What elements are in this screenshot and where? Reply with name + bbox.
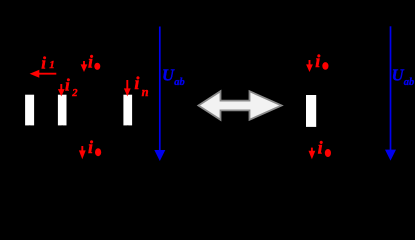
svg-text:U: U bbox=[162, 66, 175, 85]
label i2 bbox=[65, 76, 78, 99]
label i total top-right bbox=[315, 51, 328, 71]
wire: Rn bottom stub bbox=[127, 125, 129, 133]
voltage arrow Uab (left circuit) bbox=[154, 27, 165, 162]
svg-text:1: 1 bbox=[49, 59, 55, 71]
wire: R1 bottom stub bbox=[29, 125, 31, 133]
voltage arrow Uab (right circuit) bbox=[385, 26, 396, 160]
current arrow i2 (down, into R2) bbox=[58, 84, 65, 96]
current arrow in (down, into Rn) bbox=[124, 80, 131, 96]
label in bbox=[134, 73, 148, 99]
current arrow i total top-left (down, on feed wire) bbox=[81, 61, 88, 72]
svg-text:i: i bbox=[41, 53, 46, 72]
current arrow i1 (points left along top rail) bbox=[30, 70, 57, 78]
svg-text:ab: ab bbox=[174, 77, 185, 88]
resistor Rn bbox=[123, 95, 132, 126]
label Uab (left) bbox=[162, 66, 185, 88]
svg-text:U: U bbox=[392, 66, 405, 85]
svg-text:2: 2 bbox=[71, 88, 78, 99]
wire: R2 bottom stub bbox=[61, 125, 63, 133]
label i total top-left bbox=[88, 51, 100, 71]
svg-text:i: i bbox=[65, 76, 70, 95]
svg-text:i: i bbox=[88, 51, 93, 71]
wire: left feed from terminal a bbox=[83, 55, 85, 88]
equivalence double arrow bbox=[198, 91, 281, 120]
wire: R1 top stub bbox=[29, 88, 31, 95]
label Uab (right) bbox=[392, 66, 415, 88]
wire: R2 top stub bbox=[61, 88, 63, 95]
wire: left return to terminal b bbox=[81, 133, 83, 162]
wire: right circuit return to terminal b bbox=[311, 127, 313, 162]
svg-text:n: n bbox=[142, 85, 149, 99]
svg-text:i: i bbox=[318, 138, 323, 158]
resistor R equivalent bbox=[306, 95, 316, 127]
label i total bottom-left bbox=[88, 137, 101, 157]
node a (right) bbox=[309, 53, 313, 57]
wire: left circuit top rail (node a) bbox=[18, 87, 145, 89]
label i1 bbox=[41, 53, 55, 72]
resistor R2 bbox=[58, 95, 67, 126]
svg-text:i: i bbox=[88, 137, 93, 157]
svg-text:ab: ab bbox=[404, 77, 415, 88]
resistor R1 bbox=[25, 95, 34, 126]
node a (left) bbox=[82, 53, 86, 57]
wire: right circuit feed from terminal a bbox=[310, 55, 312, 95]
node b (right) bbox=[310, 160, 314, 164]
label i total bottom-right bbox=[318, 138, 331, 158]
svg-text:i: i bbox=[315, 51, 320, 71]
svg-text:i: i bbox=[134, 73, 139, 93]
current arrow i total bottom-left (down, on return wire) bbox=[79, 146, 86, 159]
wire: left circuit bottom rail (node b) bbox=[18, 132, 145, 134]
current arrow i total top-right (down, on feed wire) bbox=[306, 60, 313, 72]
current arrow i total bottom-right (down, on return wire) bbox=[309, 148, 316, 160]
wire: Rn top stub bbox=[127, 88, 129, 95]
node b (left) bbox=[81, 160, 85, 164]
